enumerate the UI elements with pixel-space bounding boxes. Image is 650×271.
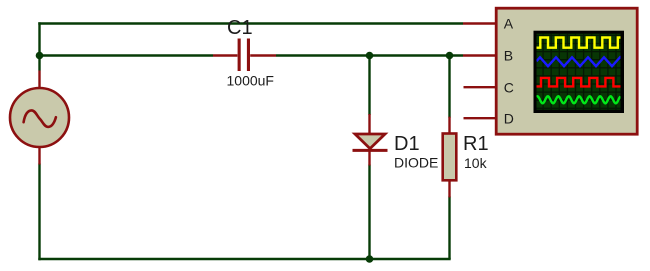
pin: resistor R1 bottom pin xyxy=(448,180,450,197)
pin: source bottom pin xyxy=(38,147,40,165)
wire: top horizontal net A xyxy=(38,22,463,24)
diode D1 xyxy=(353,134,388,150)
oscilloscope channel label D xyxy=(504,110,514,126)
svg-text:DIODE: DIODE xyxy=(394,155,438,171)
pin: diode D1 cathode pin xyxy=(368,150,370,166)
pin: oscilloscope pin C stub xyxy=(464,86,497,88)
pin: source top pin xyxy=(38,71,40,89)
svg-text:C1: C1 xyxy=(227,17,253,39)
wire: bottom ground net horizontal xyxy=(38,258,450,260)
svg-text:10k: 10k xyxy=(464,155,488,171)
oscilloscope U1 body xyxy=(496,8,637,134)
value label 10k xyxy=(464,155,488,171)
pin: oscilloscope pin A stub xyxy=(463,22,496,24)
oscilloscope screen bezel xyxy=(534,31,625,113)
junction: diode / ground net xyxy=(366,255,374,263)
oscilloscope screen grid xyxy=(537,34,621,110)
wire: diode top vertical xyxy=(368,56,370,116)
pin: oscilloscope pin B stub xyxy=(463,54,496,56)
svg-text:D1: D1 xyxy=(394,133,420,155)
oscilloscope trace channel B (blue triangle wave) xyxy=(537,57,621,66)
wire: resistor top vertical xyxy=(448,56,450,118)
svg-text:B: B xyxy=(504,48,513,64)
oscilloscope channel label B xyxy=(504,48,513,64)
capacitor C1 xyxy=(238,39,250,72)
pin: diode D1 anode pin xyxy=(368,114,370,134)
svg-text:1000uF: 1000uF xyxy=(227,73,274,89)
oscilloscope channel label A xyxy=(504,16,514,32)
wire: net B horizontal right segment (capacitor to scope) xyxy=(276,54,463,56)
wire: net B horizontal left segment (source to capacitor) xyxy=(40,54,214,56)
junction: resistor / net B xyxy=(446,52,454,60)
oscilloscope trace channel C (red square wave) xyxy=(537,78,621,87)
svg-text:D: D xyxy=(504,110,514,126)
label D1 xyxy=(394,133,420,155)
AC source V1 (sine generator) xyxy=(10,88,69,147)
oscilloscope channel label C xyxy=(504,79,514,95)
oscilloscope trace channel A (yellow square wave) xyxy=(537,38,621,48)
oscilloscope screen background xyxy=(537,34,621,110)
pin: resistor R1 top pin xyxy=(448,117,450,134)
wire: resistor bottom vertical xyxy=(448,196,450,259)
label C1 xyxy=(227,17,253,39)
oscilloscope trace channel D (green sine wave) xyxy=(537,96,621,103)
pin: capacitor C1 right pin xyxy=(250,54,276,56)
wire: left vertical from top corner to source xyxy=(38,22,40,70)
junction: source / net B xyxy=(36,52,44,60)
svg-text:C: C xyxy=(504,79,514,95)
value label DIODE xyxy=(394,155,438,171)
value label 1000uF xyxy=(227,73,274,89)
svg-text:A: A xyxy=(504,16,514,32)
svg-text:R1: R1 xyxy=(463,133,489,155)
label R1 xyxy=(463,133,489,155)
wire: diode bottom vertical xyxy=(368,165,370,260)
junction: diode / net B xyxy=(366,52,374,60)
wire: source bottom vertical xyxy=(38,164,40,261)
pin: capacitor C1 left pin xyxy=(213,54,237,56)
resistor R1 xyxy=(443,134,457,181)
pin: oscilloscope pin D stub xyxy=(464,117,497,119)
